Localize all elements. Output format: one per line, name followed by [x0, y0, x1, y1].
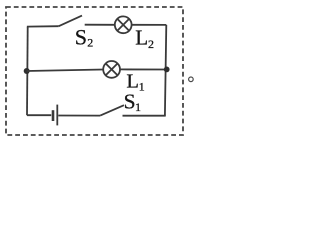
node: left junction dot	[24, 68, 30, 74]
label L2	[135, 26, 154, 51]
wire: left vertical from top-left corner to bottom-left corner	[26, 27, 29, 116]
dashed box boundary	[6, 7, 183, 135]
wire: battery to switch S1 pivot	[58, 115, 100, 117]
svg-text:S: S	[124, 90, 136, 114]
wire: right vertical from top-right corner to bottom-right corner	[165, 25, 166, 116]
wire: switch S1 right contact to bottom-right corner	[123, 115, 166, 117]
wire: switch S2 right contact to lamp L2	[85, 24, 115, 26]
label L1	[126, 70, 144, 93]
switch S1 (open blade)	[100, 105, 124, 115]
wire: top-left horizontal to switch S2 pivot	[27, 25, 59, 27]
wire: middle branch left segment to lamp L1	[27, 70, 104, 72]
svg-text:1: 1	[135, 100, 141, 114]
svg-text:2: 2	[87, 35, 93, 49]
battery cell: long thin positive plate	[56, 105, 58, 126]
svg-text:S: S	[75, 24, 87, 49]
switch S2 (open blade)	[59, 16, 82, 27]
label S2	[75, 24, 94, 49]
wire: bottom-left horizontal to battery	[27, 114, 51, 116]
wire: lamp L1 to right junction	[120, 68, 167, 70]
battery cell: short thick negative plate	[52, 110, 55, 121]
label S1	[124, 90, 141, 115]
svg-text:2: 2	[148, 37, 154, 51]
terminal: small open circle outside box	[189, 77, 194, 82]
svg-text:L: L	[135, 26, 148, 50]
lamp L1 (circle with X)	[103, 61, 120, 78]
node: right junction dot	[164, 67, 170, 73]
wire: lamp L2 to top-right corner	[132, 24, 167, 26]
svg-text:1: 1	[139, 80, 145, 94]
lamp L2 (circle with X)	[115, 16, 132, 33]
